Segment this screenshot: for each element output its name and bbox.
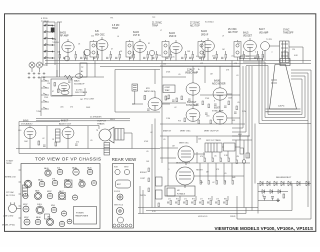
svg-text:AUDIO OUT: AUDIO OUT [59, 123, 72, 126]
svg-text:OUTPUT: OUTPUT [97, 121, 107, 123]
svg-text:C40: C40 [18, 130, 21, 132]
wire right sweep drops [240, 134, 248, 170]
vert output transformer T9 [205, 143, 222, 152]
tube V9b [61, 91, 69, 95]
resistor R21 [58, 89, 60, 93]
wire yoke loop 3 [243, 62, 305, 118]
svg-text:TOP VIEW OF VP CHASSIS: TOP VIEW OF VP CHASSIS [35, 157, 101, 162]
wire sweep middle [160, 147, 250, 176]
tube V1 6AG5 RF amp [62, 42, 74, 53]
wire yoke loop 2 [240, 59, 308, 121]
svg-text:TO PIX: TO PIX [266, 39, 273, 41]
tube socket (top view) 21 [35, 219, 41, 225]
B+ arrow [277, 198, 280, 202]
svg-text:TRAP: TRAP [165, 89, 171, 92]
tube V17 vert osc [178, 146, 194, 165]
svg-text:4.5 MC: 4.5 MC [112, 25, 120, 27]
flyback transformer box [165, 186, 195, 196]
svg-text:SYNC: SYNC [283, 29, 290, 31]
control R volume [156, 177, 163, 199]
wire sweep top [160, 136, 250, 186]
svg-text:6AC7: 6AC7 [259, 28, 265, 31]
tube socket (top view) 9 [79, 181, 85, 187]
rectifier SR4 [281, 181, 284, 186]
node damper [242, 160, 246, 164]
svg-text:.05: .05 [146, 151, 149, 153]
wire video bias loop [115, 70, 160, 113]
svg-text:VERT: VERT [124, 167, 128, 169]
focus knob [117, 194, 123, 200]
svg-text:C75: C75 [184, 198, 187, 200]
fuse holder [23, 185, 28, 196]
line cord plug P1 [9, 202, 22, 212]
rectifier SR7 [306, 181, 309, 186]
svg-text:VERT OSC: VERT OSC [180, 130, 191, 132]
phono jack J1 [29, 62, 35, 68]
IF transformer T5 [234, 40, 241, 61]
svg-text:117 V AC: 117 V AC [6, 191, 14, 194]
capacitor C30 [43, 145, 46, 146]
wire yoke to power [252, 124, 255, 211]
svg-text:.05: .05 [178, 74, 181, 76]
svg-text:6AG5: 6AG5 [169, 32, 176, 35]
contrast control box [163, 85, 175, 93]
tube socket (top view) 16 [23, 206, 29, 212]
capacitor C27 [147, 109, 150, 110]
svg-text:.01: .01 [70, 80, 73, 82]
extra top strip stubs [60, 51, 263, 61]
wire yoke loop 4 [246, 66, 302, 115]
resistor R90 [283, 194, 285, 198]
yoke connector box [224, 143, 236, 151]
rectifier SR8 [262, 190, 265, 194]
height control R40 [240, 148, 243, 154]
svg-text:ADJ TOP: ADJ TOP [190, 24, 200, 27]
svg-text:4.7: 4.7 [196, 56, 199, 58]
svg-text:FOCUS: FOCUS [114, 191, 121, 193]
rear knob 2 [124, 169, 129, 174]
svg-text:TRAP: TRAP [152, 25, 159, 28]
tube socket (top view) 6 [39, 181, 45, 187]
tube socket (top view) 3 [73, 169, 79, 175]
tube socket (top view) 7 [52, 180, 58, 186]
tube socket (top view) 19 [61, 211, 66, 216]
rectifier SR2 [267, 181, 270, 186]
svg-text:6SN7GT: 6SN7GT [163, 130, 172, 132]
svg-text:DRIVE: DRIVE [230, 216, 236, 218]
tube V3 6AG5 1st IF [134, 42, 146, 53]
svg-text:6AV6: 6AV6 [35, 190, 39, 193]
chassis outline box [21, 164, 100, 229]
svg-text:6AU6: 6AU6 [38, 178, 43, 181]
antenna coil L1 (dark) [51, 28, 55, 33]
band switch S2 [40, 77, 42, 116]
resistor R15 zigzag [64, 75, 73, 78]
svg-text:VERT OSC: VERT OSC [179, 143, 189, 145]
svg-text:VERT HOLD: VERT HOLD [114, 205, 124, 207]
svg-text:470: 470 [200, 156, 203, 158]
svg-text:R74: R74 [176, 198, 179, 200]
svg-text:BRIGHT: BRIGHT [140, 172, 148, 174]
svg-text:R76: R76 [192, 198, 195, 200]
tube V16 6K6 audio out [62, 127, 74, 138]
svg-text:VID DET: VID DET [243, 36, 253, 38]
tube socket (top view) 13 [47, 193, 53, 199]
filter choke L2 [104, 143, 110, 156]
electrolytic can squares [45, 180, 73, 219]
svg-text:T8: T8 [96, 130, 98, 132]
IF transformer T4 [198, 40, 205, 61]
rectifier SR9 [270, 190, 273, 194]
antenna terminal block [116, 180, 131, 188]
wire bottom bus 2 [146, 210, 292, 212]
tube socket (top view) 12 [34, 192, 41, 199]
wire tube cathode drops [68, 50, 265, 60]
svg-text:12LP4: 12LP4 [278, 106, 285, 108]
vert hold knob [116, 207, 123, 214]
svg-text:L4: L4 [117, 36, 119, 38]
svg-text:L9: L9 [222, 36, 224, 38]
svg-text:6J6: 6J6 [57, 167, 60, 169]
svg-text:6T8: 6T8 [52, 179, 55, 181]
svg-text:1.5M: 1.5M [166, 118, 170, 120]
resistor R31 [55, 142, 57, 146]
svg-text:150: 150 [163, 63, 166, 65]
component value labels sweep [140, 132, 239, 218]
svg-text:SOUND IF: SOUND IF [74, 84, 85, 86]
svg-text:25.3 MC: 25.3 MC [228, 29, 237, 31]
svg-text:REAR VIEW: REAR VIEW [112, 157, 137, 162]
tube socket (top view) 17 [36, 206, 44, 214]
svg-text:HOR HOLD: HOR HOLD [198, 216, 208, 218]
svg-text:.005: .005 [60, 107, 64, 109]
svg-text:TP1: TP1 [110, 17, 113, 19]
svg-text:AL: AL [81, 70, 83, 73]
tube V2 6J6 mixer-osc [96, 40, 108, 51]
svg-text:6BG6: 6BG6 [36, 217, 41, 219]
svg-text:.05: .05 [172, 57, 175, 59]
rectifier SR10 [278, 190, 281, 194]
svg-text:6SN7GT: 6SN7GT [187, 101, 197, 104]
tube socket (top view) 24 [67, 219, 72, 224]
IF transformer T2 [126, 40, 133, 61]
svg-text:VIEWTONE MODELS VP100, VP100A,: VIEWTONE MODELS VP100, VP100A, VP101S [215, 226, 313, 231]
svg-text:R78: R78 [208, 198, 211, 200]
svg-text:6AV6: 6AV6 [23, 120, 29, 123]
svg-text:27.25 MC: 27.25 MC [190, 22, 200, 24]
tube V18 vert output [176, 167, 194, 188]
wire sound section bottom [52, 61, 95, 96]
svg-text:VERT OUTPUT: VERT OUTPUT [204, 130, 219, 132]
svg-text:3RD IF: 3RD IF [201, 34, 209, 36]
svg-text:.1: .1 [168, 169, 170, 171]
wire rect line 2 [258, 184, 292, 214]
tube socket (top view) 15 [72, 195, 77, 200]
svg-text:AGC KEYER: AGC KEYER [212, 83, 226, 86]
tube V1b osc section [84, 49, 90, 55]
svg-text:VID AMP: VID AMP [259, 31, 269, 34]
capacitor cluster center [172, 100, 175, 101]
svg-text:150: 150 [158, 55, 161, 57]
svg-text:VIDEO AMP: VIDEO AMP [185, 72, 199, 75]
svg-text:.02: .02 [42, 138, 45, 140]
svg-text:21.25 MC: 21.25 MC [152, 23, 162, 25]
svg-text:.1: .1 [271, 52, 273, 54]
svg-text:6K6GT: 6K6GT [61, 121, 69, 123]
tube socket (top view) 1 [45, 170, 51, 176]
tube V12 6AU6 AGC [213, 88, 227, 100]
linearity control R41 [246, 153, 249, 158]
tube V13 6SN7 sync sep [186, 109, 200, 122]
svg-text:2.2M: 2.2M [242, 111, 246, 113]
svg-text:SYNC AMP: SYNC AMP [212, 109, 224, 112]
rectifier SR3 [274, 181, 277, 186]
wire video out loop [269, 46, 303, 63]
svg-text:6AG5: 6AG5 [133, 31, 140, 34]
interlock socket row [113, 224, 132, 227]
svg-text:C77: C77 [200, 198, 203, 200]
coil L21 [75, 74, 82, 78]
resistor cluster center [168, 95, 170, 99]
svg-text:TUNER: TUNER [41, 21, 49, 23]
node test point [65, 56, 70, 61]
svg-text:TUNING: TUNING [52, 42, 59, 44]
tube V5 6AG5 3rd IF [202, 40, 215, 51]
wire bottom bus 3 [138, 208, 246, 214]
component value labels top strip [52, 17, 298, 60]
svg-text:4.5MC: 4.5MC [165, 87, 171, 89]
svg-text:5U4G: 5U4G [37, 204, 42, 206]
svg-text:TERM: TERM [6, 163, 12, 165]
wire ps bottom [258, 200, 280, 202]
svg-text:6W4: 6W4 [51, 205, 55, 207]
svg-text:POWER: POWER [76, 213, 84, 215]
svg-text:6AG5: 6AG5 [60, 32, 67, 35]
svg-text:6SN7: 6SN7 [23, 204, 28, 206]
svg-text:SELENIUM RECT: SELENIUM RECT [276, 177, 292, 179]
svg-text:4in SPEAKER: 4in SPEAKER [90, 116, 102, 119]
filter capacitor C80 [263, 195, 266, 201]
svg-text:L20: L20 [47, 83, 50, 85]
speaker SP1 [99, 127, 114, 143]
svg-text:6SN7: 6SN7 [214, 108, 220, 110]
tube socket (top view) 10 [91, 180, 96, 185]
svg-text:INTERLOCK: INTERLOCK [5, 177, 17, 179]
sound IF shield box [51, 79, 72, 96]
svg-text:.01: .01 [131, 55, 134, 57]
svg-text:6SN7: 6SN7 [47, 191, 52, 193]
svg-text:SLUG ADJ: SLUG ADJ [205, 20, 214, 23]
output transformer T8 [115, 129, 124, 141]
svg-text:TRANSFORMER: TRANSFORMER [75, 215, 89, 218]
svg-text:.05: .05 [90, 140, 93, 142]
svg-text:.05: .05 [224, 173, 227, 175]
wire heater bus [45, 63, 311, 65]
phono jack J2 [37, 62, 43, 68]
svg-text:6AG5: 6AG5 [44, 167, 49, 170]
svg-text:220: 220 [91, 36, 94, 38]
wire AGC line [100, 66, 240, 68]
wire yoke loop 1 [240, 56, 311, 124]
resistor R network under IF strip [59, 54, 61, 58]
svg-text:6AG5: 6AG5 [201, 30, 208, 33]
svg-text:VERT OUT TRANS: VERT OUT TRANS [206, 139, 221, 142]
svg-text:L12: L12 [200, 63, 203, 65]
chassis socket labels [23, 167, 92, 220]
svg-text:6W4: 6W4 [238, 134, 242, 136]
transformer T6 video peaking [280, 41, 290, 63]
tube V7 sound takeoff [149, 50, 154, 55]
resistor R30 [38, 141, 40, 145]
svg-text:270: 270 [212, 56, 215, 58]
tube socket (top view) 23 [59, 221, 65, 227]
interstage transformer T10 [56, 129, 61, 142]
svg-text:C31: C31 [237, 43, 240, 45]
extra wire stubs sweep [160, 140, 236, 181]
wire sound IF input [41, 70, 104, 77]
svg-text:TRAP: TRAP [112, 27, 119, 30]
svg-text:C79: C79 [216, 198, 219, 200]
svg-text:1ST IF: 1ST IF [133, 35, 140, 37]
wire ratio det connections [132, 70, 170, 105]
svg-text:FIELD: FIELD [110, 119, 116, 121]
tube V4 6AG5 2nd IF [170, 43, 182, 54]
tuner channel selector switch S1 [43, 22, 55, 66]
svg-text:.02: .02 [174, 107, 177, 109]
svg-text:.01: .01 [236, 75, 239, 77]
wire lower horizontal pair [36, 119, 130, 121]
svg-text:MIX OSC: MIX OSC [95, 34, 105, 36]
tube socket (top view) 4 [87, 169, 93, 175]
svg-text:6SN7: 6SN7 [24, 217, 29, 219]
svg-text:.02: .02 [150, 132, 153, 134]
svg-text:1ST AUDIO: 1ST AUDIO [21, 123, 33, 126]
tube V9 6AU6 sound IF [59, 83, 70, 91]
wire jack stubs [32, 68, 40, 72]
svg-text:4.5 MC: 4.5 MC [76, 90, 83, 92]
svg-text:2ND IF: 2ND IF [169, 36, 177, 38]
svg-text:TAKEOFF: TAKEOFF [283, 32, 294, 35]
svg-text:.01: .01 [231, 55, 234, 57]
tube V8 1st video amp [261, 42, 270, 51]
component value labels sound/audio [18, 80, 116, 144]
svg-text:R80: R80 [224, 198, 227, 200]
svg-text:.001: .001 [206, 115, 210, 117]
svg-text:8: 8 [214, 101, 215, 103]
component value labels center [163, 63, 246, 123]
tube socket (top view) 20 [24, 219, 30, 225]
rectifier SR1 [260, 181, 263, 186]
rear panel box [113, 164, 134, 229]
svg-text:WIDTH: WIDTH [140, 195, 147, 197]
wire HV lead [308, 121, 311, 220]
svg-text:TONE: TONE [36, 111, 42, 113]
tube socket (top view) 14 [59, 193, 65, 199]
svg-text:60 CYCLE: 60 CYCLE [6, 195, 16, 197]
tube socket (top view) 2 [57, 169, 63, 175]
svg-text:270: 270 [70, 107, 73, 109]
svg-text:FLYBACK: FLYBACK [177, 192, 186, 195]
svg-text:6AU6: 6AU6 [74, 80, 80, 83]
CRT socket [280, 50, 290, 66]
svg-text:47: 47 [52, 91, 54, 93]
svg-text:120: 120 [292, 49, 295, 51]
tube socket (top view) 18 [51, 207, 57, 213]
tube socket (top view) 8 [65, 181, 71, 187]
svg-text:C72: C72 [168, 198, 171, 200]
capacitor C31 [75, 144, 78, 145]
wire audio row [16, 122, 160, 154]
resistor R20 [54, 83, 56, 87]
svg-text:.05: .05 [163, 139, 166, 141]
capacitor marks under IF strip [63, 57, 65, 58]
filter capacitor C81 [271, 197, 274, 201]
tube V14 6SN7 sync amp [213, 112, 227, 124]
discriminator transformer T7 [132, 84, 138, 91]
svg-text:VOL CONT: VOL CONT [84, 99, 95, 101]
tube V6 6AL5 video det [244, 40, 257, 51]
svg-text:RATIO DET: RATIO DET [144, 90, 156, 93]
svg-text:82: 82 [148, 43, 150, 45]
tube socket (top view) 5 [24, 180, 32, 188]
tube V10 6T8 ratio det [148, 98, 162, 111]
wire rectifier line [257, 183, 311, 185]
capacitor C20 [68, 81, 70, 82]
rectifier SR6 [297, 181, 300, 186]
svg-text:470: 470 [76, 141, 79, 143]
svg-text:RF AMP: RF AMP [60, 35, 69, 38]
tube V15 6AV6 1st audio [24, 127, 36, 138]
svg-text:47: 47 [111, 48, 113, 50]
svg-text:ADJ TOP: ADJ TOP [228, 31, 238, 34]
tube socket (top view) 11 [23, 193, 28, 198]
svg-text:10M: 10M [24, 141, 28, 143]
svg-text:B+: B+ [198, 69, 200, 71]
trimmer capacitor bank [28, 72, 46, 79]
height knob [118, 217, 124, 223]
wire deflection returns [232, 66, 252, 140]
svg-text:.02: .02 [212, 182, 215, 184]
rear knob 1 [115, 169, 120, 174]
svg-text:6AG5: 6AG5 [72, 167, 77, 170]
ion trap magnet [271, 80, 277, 83]
resistor R25 [144, 96, 146, 100]
svg-text:6AC7: 6AC7 [59, 190, 64, 193]
svg-text:6AG5: 6AG5 [87, 167, 92, 170]
svg-text:.05: .05 [214, 156, 217, 158]
wire tube label stubs [68, 37, 250, 43]
extra resistor marks sweep [204, 158, 206, 162]
svg-text:6AU6: 6AU6 [214, 80, 221, 83]
svg-text:SYNC SEP: SYNC SEP [186, 105, 198, 107]
chassis edge terminals [19, 170, 22, 218]
wire B+ bus (top) [45, 60, 311, 62]
top strip tube labels [60, 22, 294, 38]
svg-text:TP2: TP2 [152, 17, 155, 19]
svg-text:L7: L7 [160, 30, 162, 32]
terminal strip box [80, 63, 87, 77]
svg-text:6AL5: 6AL5 [79, 178, 83, 181]
tube V11 12AU7 video amp [186, 83, 200, 95]
svg-text:DISC TRANS: DISC TRANS [75, 91, 88, 94]
svg-text:6AL5: 6AL5 [243, 31, 249, 34]
svg-text:LINE CORD: LINE CORD [3, 216, 14, 218]
CRT picture tube 12LP4 [266, 65, 301, 112]
resistor R26 [165, 96, 167, 100]
svg-text:.05: .05 [237, 102, 240, 104]
tube socket (top view) 22 [46, 218, 53, 225]
wire vertical feeders [140, 119, 155, 214]
